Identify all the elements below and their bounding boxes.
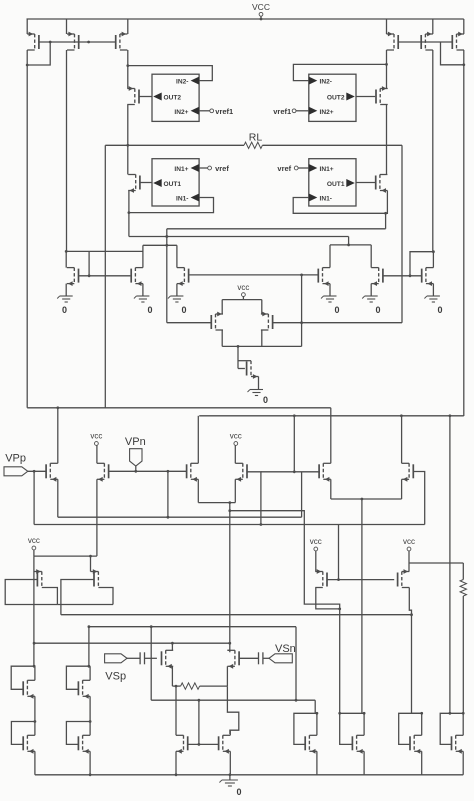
wire Q4 drain lead up — [89, 666, 91, 680]
junction T4 drain at RL line — [126, 144, 129, 147]
transistor Q3 — [23, 680, 35, 698]
junction T10 drain node — [432, 250, 435, 253]
wire Q12 diode loop — [340, 713, 364, 744]
wire T2p source drop — [432, 19, 434, 34]
wire R3 drain jog — [316, 588, 340, 609]
transistor Q2 — [91, 569, 99, 587]
wire T3p source drop — [463, 19, 465, 34]
wire T3' drain bus down — [463, 65, 465, 416]
wire T5 drain drop — [128, 174, 130, 176]
wire Q9Q10 gate riser — [198, 700, 200, 744]
wire Q14 drain lead up — [462, 713, 464, 735]
svg-text:IN2+: IN2+ — [174, 109, 188, 116]
wire R1 source down — [171, 666, 173, 686]
wire Q6 diode loop — [66, 722, 90, 745]
wire net RL right edge — [401, 145, 403, 322]
junction T9 drain node — [237, 345, 240, 348]
junction gate line mid node — [87, 41, 90, 44]
svg-text:IN2-: IN2- — [320, 79, 332, 86]
wire T9 gate link — [238, 368, 245, 370]
wire T4' drain drop — [386, 105, 388, 146]
svg-text:0: 0 — [182, 305, 187, 315]
svg-text:IN2+: IN2+ — [320, 109, 334, 116]
junction H2 east node — [410, 613, 413, 616]
transistor P2 — [97, 463, 109, 481]
wire Q9 source drop — [175, 751, 177, 775]
wire T2 source drop — [66, 19, 68, 34]
junction Q11 drain node — [316, 712, 319, 715]
transistor P4 — [235, 463, 247, 481]
svg-text:vcc: vcc — [230, 432, 242, 441]
ground T6 gnd — [57, 296, 72, 302]
wire IN1+ right wire — [298, 167, 309, 169]
power vcc P4 — [230, 432, 242, 446]
junction gate line node — [198, 743, 201, 746]
port IN1+ left — [191, 164, 200, 172]
junction T1 drain node — [26, 64, 29, 67]
wire P1 drain up — [57, 408, 59, 464]
junction PC2 gate tie — [300, 321, 303, 324]
wire T6 diode drop — [88, 251, 90, 275]
wire node to IN2- left — [128, 66, 213, 81]
wire T4 gate to OUT2 — [139, 96, 152, 98]
wire pair2 tail U — [331, 498, 402, 500]
junction rail q6 tap — [89, 773, 92, 776]
transistor T4 — [127, 86, 139, 104]
power vcc lower left — [28, 536, 40, 556]
junction L1 jog bottom — [167, 516, 170, 519]
svg-text:VSn: VSn — [275, 643, 296, 655]
power VCC top — [252, 2, 270, 19]
wire T9 source jog — [258, 377, 260, 390]
port OUT1 left — [153, 179, 162, 187]
transistor R2 — [227, 650, 239, 668]
power vcc R3 — [310, 537, 322, 556]
ground T9 gnd — [248, 390, 264, 396]
wire VPp drop — [33, 471, 35, 524]
svg-text:0: 0 — [148, 305, 153, 315]
junction H3 mid tap — [150, 625, 153, 628]
junction rail q9 tap — [175, 773, 178, 776]
wire R4 source drop — [408, 556, 410, 572]
wire P1 source down — [57, 479, 59, 517]
wire line B — [129, 236, 349, 238]
wire R5 bottom drop — [462, 596, 464, 713]
wire Q6 source to rail — [89, 751, 91, 775]
wire Q3 drain lead up — [34, 666, 36, 680]
junction rail tail tap — [229, 773, 232, 776]
junction IN1- right node — [384, 212, 387, 215]
wire bias riser — [301, 275, 303, 347]
svg-text:0: 0 — [438, 305, 443, 315]
junction Q14 bias node — [449, 712, 452, 715]
wire T3' drain drop — [463, 50, 465, 65]
wire T9 drain lead — [238, 360, 251, 362]
wire lineB drop to right pair — [348, 237, 350, 245]
wire Q3 source drop — [34, 696, 36, 721]
wire NL1 drain up — [142, 245, 144, 267]
svg-text:VPp: VPp — [5, 453, 26, 465]
wire P4-P5 gate line — [261, 471, 320, 473]
wire line A — [167, 228, 386, 230]
wire R2 drain lead — [227, 649, 229, 651]
wire NR2-T10 gate line — [383, 275, 422, 277]
wire IN2+ right wire — [296, 110, 309, 112]
wire T6 drain lead up — [65, 251, 67, 267]
wire Q10 drain riser — [229, 730, 231, 735]
junction Q5 drain node — [34, 720, 37, 723]
port tag VPp — [4, 467, 28, 476]
transistor P5 — [319, 463, 331, 481]
port IN1- left — [191, 194, 200, 202]
wire L1 to VPn jog — [167, 471, 169, 517]
wire R2 source down — [226, 666, 228, 686]
wire bottom rail — [35, 774, 463, 776]
junction right pair drain node — [347, 244, 350, 247]
port IN2+ left — [191, 107, 200, 115]
svg-text:IN1-: IN1- — [176, 196, 188, 203]
wire mid gate line LR — [189, 274, 317, 276]
wire T5' gate to OUT1 — [356, 182, 376, 184]
resistor R mid — [181, 683, 200, 689]
wire Q1 drain lead — [42, 588, 58, 605]
port OUT1 right — [346, 179, 355, 187]
transistor P3 — [187, 463, 199, 481]
wire net RL left edge — [104, 145, 106, 408]
resistor RL — [244, 142, 262, 148]
transistor Q10 — [219, 735, 231, 753]
transistor R4 — [398, 569, 410, 587]
svg-text:0: 0 — [237, 787, 242, 797]
wire IN1- right wire — [293, 198, 385, 214]
svg-text:vref1: vref1 — [215, 107, 233, 116]
junction Q13 drain node — [420, 712, 423, 715]
junction vcc rail tap — [260, 18, 263, 21]
transistor NR1 — [318, 268, 330, 286]
wire P4 drain vcc — [234, 447, 236, 463]
junction VPn node — [134, 470, 137, 473]
junction IN1- left node — [127, 211, 130, 214]
wire PC2 gate lead — [273, 322, 402, 324]
wire bias drop from lineB — [293, 416, 295, 472]
wire Q2 gate jog — [61, 580, 94, 615]
wire lineB to Q14 drop — [449, 416, 451, 714]
svg-text:OUT1: OUT1 — [164, 181, 182, 188]
svg-text:RL: RL — [249, 132, 263, 144]
transistor T1 — [27, 32, 39, 50]
wire left stack rail — [33, 556, 35, 666]
capacitor VSn cap — [259, 652, 263, 664]
capacitor VSp cap — [140, 652, 144, 664]
wire T2' drain bus — [432, 50, 434, 252]
junction R3 gate tap — [337, 578, 340, 581]
junction lineB bias tap — [293, 414, 296, 417]
transistor T1' — [387, 32, 399, 50]
wire Q12 source drop — [363, 751, 365, 775]
wire H5 east corner — [314, 700, 316, 713]
ground main gnd — [219, 780, 238, 786]
svg-text:OUT2: OUT2 — [327, 95, 345, 102]
wire R5 top — [462, 563, 464, 580]
wire line L1 — [58, 516, 302, 518]
svg-text:vcc: vcc — [237, 283, 249, 292]
wire PC2 drain drop — [261, 330, 263, 346]
wire RL line left — [105, 144, 244, 146]
transistor NR2 — [371, 268, 383, 286]
transistor T3 — [116, 32, 128, 50]
power vcc P2 — [90, 432, 102, 446]
wire R3 source drop — [315, 556, 317, 572]
wire NR2 source drop — [370, 284, 372, 296]
transistor R1 — [162, 650, 174, 668]
wire NL2 drain up — [176, 245, 178, 267]
wire P5 source down — [330, 479, 332, 499]
transistor Q9 — [176, 735, 188, 753]
wire T4' gate to OUT2 — [356, 96, 375, 98]
ground T10 gnd — [424, 296, 440, 302]
port IN2- left — [191, 77, 200, 85]
wire VSp to cap — [127, 657, 140, 659]
wire Q13 source drop — [421, 751, 423, 775]
junction T3' drain node — [462, 63, 465, 66]
wire VPn stem — [135, 466, 137, 471]
node vref left — [208, 166, 212, 170]
wire right diode link — [441, 42, 464, 65]
wire pair1 tail U — [198, 502, 235, 504]
wire T4p source drop — [386, 64, 388, 88]
wire vcc bar — [34, 555, 97, 557]
wire Rmid line right — [200, 685, 227, 687]
junction H3 west node — [88, 625, 91, 628]
block amp A2 left — [152, 74, 199, 121]
junction H4 R2 tap — [228, 642, 231, 645]
wire T5 gate to OUT1 — [140, 182, 152, 184]
junction pair2 tail node — [361, 498, 364, 501]
junction VPp node — [33, 470, 36, 473]
wire P5 drain up — [330, 408, 332, 464]
ground NL2 gnd — [168, 296, 184, 302]
wire Q11 diode loop — [294, 713, 317, 744]
junction H4 R1 tap — [171, 642, 174, 645]
wire R5 feed — [409, 562, 463, 564]
wire VPp wire — [28, 470, 47, 472]
port IN2- right — [309, 77, 318, 85]
transistor T2 — [67, 32, 79, 50]
wire Q4 diode loop — [66, 666, 89, 689]
wire R2 src to Q10 — [227, 686, 238, 734]
wire Rmid line left — [172, 685, 180, 687]
wire center drain bus — [222, 345, 301, 347]
wire Q9Q10 gate line — [188, 743, 219, 745]
junction R3 drain tie — [338, 608, 341, 611]
wire pair1 tail drop — [229, 503, 231, 653]
wire NR2 drain up — [370, 245, 372, 268]
power vcc center — [237, 283, 249, 300]
wire Q2 source drop — [90, 556, 92, 571]
svg-text:IN1+: IN1+ — [320, 166, 334, 173]
wire R1 drain up — [171, 643, 173, 650]
transistor Q4 — [78, 680, 90, 698]
wire line L0 — [230, 511, 340, 714]
junction lineB P6 tap — [400, 414, 403, 417]
wire Q3 diode loop — [11, 666, 34, 689]
junction gate line drop node — [300, 274, 303, 277]
wire T10 diode link — [410, 252, 433, 276]
wire T4 drain drop — [127, 105, 129, 175]
wire T10 drain up — [432, 252, 434, 268]
junction lineB crossing — [165, 235, 168, 238]
svg-text:IN1-: IN1- — [320, 196, 332, 203]
block amp A1 left — [152, 159, 199, 206]
svg-text:IN2-: IN2- — [176, 79, 188, 86]
svg-text:vcc: vcc — [28, 536, 40, 545]
node vref right — [294, 166, 298, 170]
svg-text:0: 0 — [62, 305, 67, 315]
wire NR1 drain up — [329, 245, 331, 268]
wire P6 source down — [401, 479, 403, 499]
node vref1 right — [292, 109, 296, 113]
port IN1- right — [309, 194, 318, 202]
junction Rmid left node — [175, 685, 178, 688]
transistor T4' — [376, 86, 388, 104]
svg-text:vcc: vcc — [90, 432, 102, 441]
junction Q6 drain node — [89, 720, 92, 723]
wire T5 source bus — [128, 191, 130, 237]
junction Q12 drain node — [363, 712, 366, 715]
port IN1+ right — [309, 164, 318, 172]
wire P3 source down — [197, 479, 199, 502]
junction vcc bar q2 tap — [89, 555, 92, 558]
wire Q9 drain riser — [175, 686, 177, 735]
junction Q14 drain node — [462, 712, 465, 715]
transistor Q12 — [352, 735, 364, 753]
junction lineB Q14 tap — [449, 414, 452, 417]
wire Q13 drain lead up — [421, 713, 423, 735]
transistor T5' — [376, 175, 388, 193]
wire P4 gate jog — [247, 472, 261, 525]
wire NL2 source drop — [176, 284, 178, 296]
svg-text:IN1+: IN1+ — [174, 166, 188, 173]
power vcc R4 — [403, 537, 415, 556]
svg-text:vref: vref — [277, 164, 291, 173]
junction gate riser top — [198, 699, 201, 702]
wire P2 source down — [96, 479, 98, 556]
junction L1 jog node — [167, 470, 170, 473]
wire R2 gate to cap — [239, 657, 258, 659]
wire lineB bus — [199, 415, 464, 417]
transistor R3 — [315, 569, 327, 587]
transistor Q6 — [78, 735, 90, 753]
wire PC1 drain drop — [221, 330, 223, 346]
junction left pair lineB tie — [165, 235, 168, 238]
block amp A1 right — [309, 159, 356, 206]
junction T1' drain node — [385, 63, 388, 66]
wire Q11 drain lead up — [316, 713, 318, 735]
wire NR1 source drop — [329, 284, 331, 296]
junction L0 tap — [228, 509, 231, 512]
wire T9 drain drop — [237, 346, 239, 368]
wire T6 gate line — [79, 275, 131, 277]
svg-text:OUT2: OUT2 — [164, 95, 182, 102]
wire vcc P2 stub — [96, 445, 98, 447]
ground NR1 gnd — [321, 296, 337, 302]
wire T1' drain drop — [386, 50, 388, 64]
transistor Q5 — [23, 735, 35, 753]
wire T1 diode link — [27, 42, 50, 65]
wire line1 bus — [27, 407, 331, 409]
wire T1p source drop — [386, 19, 388, 34]
wire PC1 gate lead — [167, 322, 212, 324]
transistor T2' — [421, 32, 433, 50]
wire T5' source to lineA — [385, 213, 387, 229]
wire IN2+ left wire — [199, 110, 210, 112]
junction H4 west node — [33, 642, 36, 645]
svg-text:0: 0 — [263, 395, 268, 405]
wire center source bar — [222, 299, 262, 301]
wire T1 drain bus down-left — [26, 65, 28, 408]
transistor PC2 — [261, 312, 273, 330]
junction gate line bias tap — [293, 470, 296, 473]
junction T6 gate node — [88, 274, 91, 277]
wire T1 source drop — [26, 19, 28, 34]
transistor T10 — [422, 268, 434, 286]
wire left pair drain hump — [143, 244, 177, 246]
wire R4 to Q13 jog — [412, 712, 422, 714]
wire Q10 source drop — [229, 751, 231, 775]
wire Q4 drain riser — [88, 627, 90, 667]
wire Q11 source drop — [316, 751, 318, 775]
transistor P6 — [402, 463, 414, 481]
wire Q5 drain lead up — [34, 722, 36, 736]
junction T6 drain node — [65, 250, 68, 253]
wire H5 bus — [151, 699, 315, 701]
node vref1 left — [210, 109, 214, 113]
svg-text:OUT1: OUT1 — [327, 181, 345, 188]
junction Q3 drain node — [33, 665, 36, 668]
wire line L2 — [34, 524, 425, 526]
wire R4 drain jog — [409, 588, 411, 714]
svg-text:0: 0 — [335, 305, 340, 315]
wire P2 drain vcc — [96, 447, 98, 463]
junction pair1 tail node — [228, 501, 231, 504]
wire node to IN2- right — [293, 64, 386, 80]
wire IN1- left wire — [129, 198, 214, 213]
wire PC1 source drop — [221, 300, 223, 314]
wire RL line right — [262, 144, 402, 146]
wire P6 gate jog — [413, 472, 424, 525]
svg-text:vcc: vcc — [310, 537, 322, 546]
svg-text:VCC: VCC — [252, 2, 270, 12]
wire T6 source drop — [65, 284, 67, 296]
port IN2+ right — [309, 107, 318, 115]
wire T4 source drop — [127, 66, 129, 89]
transistor T9 — [247, 361, 259, 379]
junction T10 gate node — [409, 274, 412, 277]
junction T1 gate tie — [49, 41, 52, 44]
wire Q14 diode loop — [440, 713, 463, 744]
transistor NL2 — [177, 268, 189, 286]
port tag VSn — [269, 654, 292, 663]
wire T10 source drop — [432, 284, 434, 296]
wire T2 drain bus — [66, 50, 68, 251]
wire Q6 drain lead up — [89, 722, 91, 736]
wire gnd stem — [229, 775, 231, 780]
port OUT2 right — [346, 93, 355, 101]
svg-text:vref1: vref1 — [273, 107, 291, 116]
junction line1 P1 tap — [56, 406, 59, 409]
wire T5' drain drop — [386, 145, 388, 174]
resistor R5 — [460, 580, 466, 597]
